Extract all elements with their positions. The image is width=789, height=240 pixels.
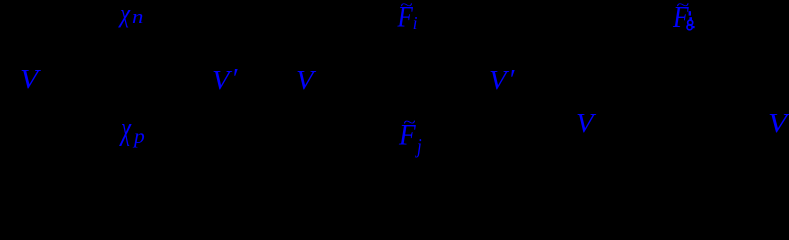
arrow V up to F (diagram 3 left side) <box>600 36 662 110</box>
label F~_i (diagram 2 upper map) <box>400 0 412 13</box>
node V (diagram 2 left) <box>296 67 313 94</box>
node V' (diagram 2 right) <box>489 67 506 94</box>
label F~_j (diagram 2 lower map) <box>403 114 415 131</box>
arrow V to V' upper via chi_n <box>48 47 208 75</box>
node V' (diagram 1 right) <box>212 67 229 94</box>
arrow V to V' lower via F_j <box>322 84 484 113</box>
subscript glyph (bar, dot, double ring, tail) of diagram 3 F label <box>686 11 698 35</box>
node V (diagram 3 bottom right, clipped by image edge) <box>768 110 787 137</box>
arrow V to V' lower via chi_p <box>48 84 208 113</box>
label F~_xi (diagram 3 top map) <box>676 0 689 13</box>
label chi_n (diagram 1 upper map) <box>120 1 130 27</box>
label chi_p (diagram 1 lower map) <box>121 112 131 145</box>
arrow V to V' upper via F_i <box>322 47 484 75</box>
node V (diagram 3 bottom left) <box>576 110 593 137</box>
arrow F down to V (diagram 3 right side) <box>702 36 764 110</box>
node V (diagram 1 left) <box>20 66 38 93</box>
arrow V to V (diagram 3 bottom) <box>602 122 763 124</box>
